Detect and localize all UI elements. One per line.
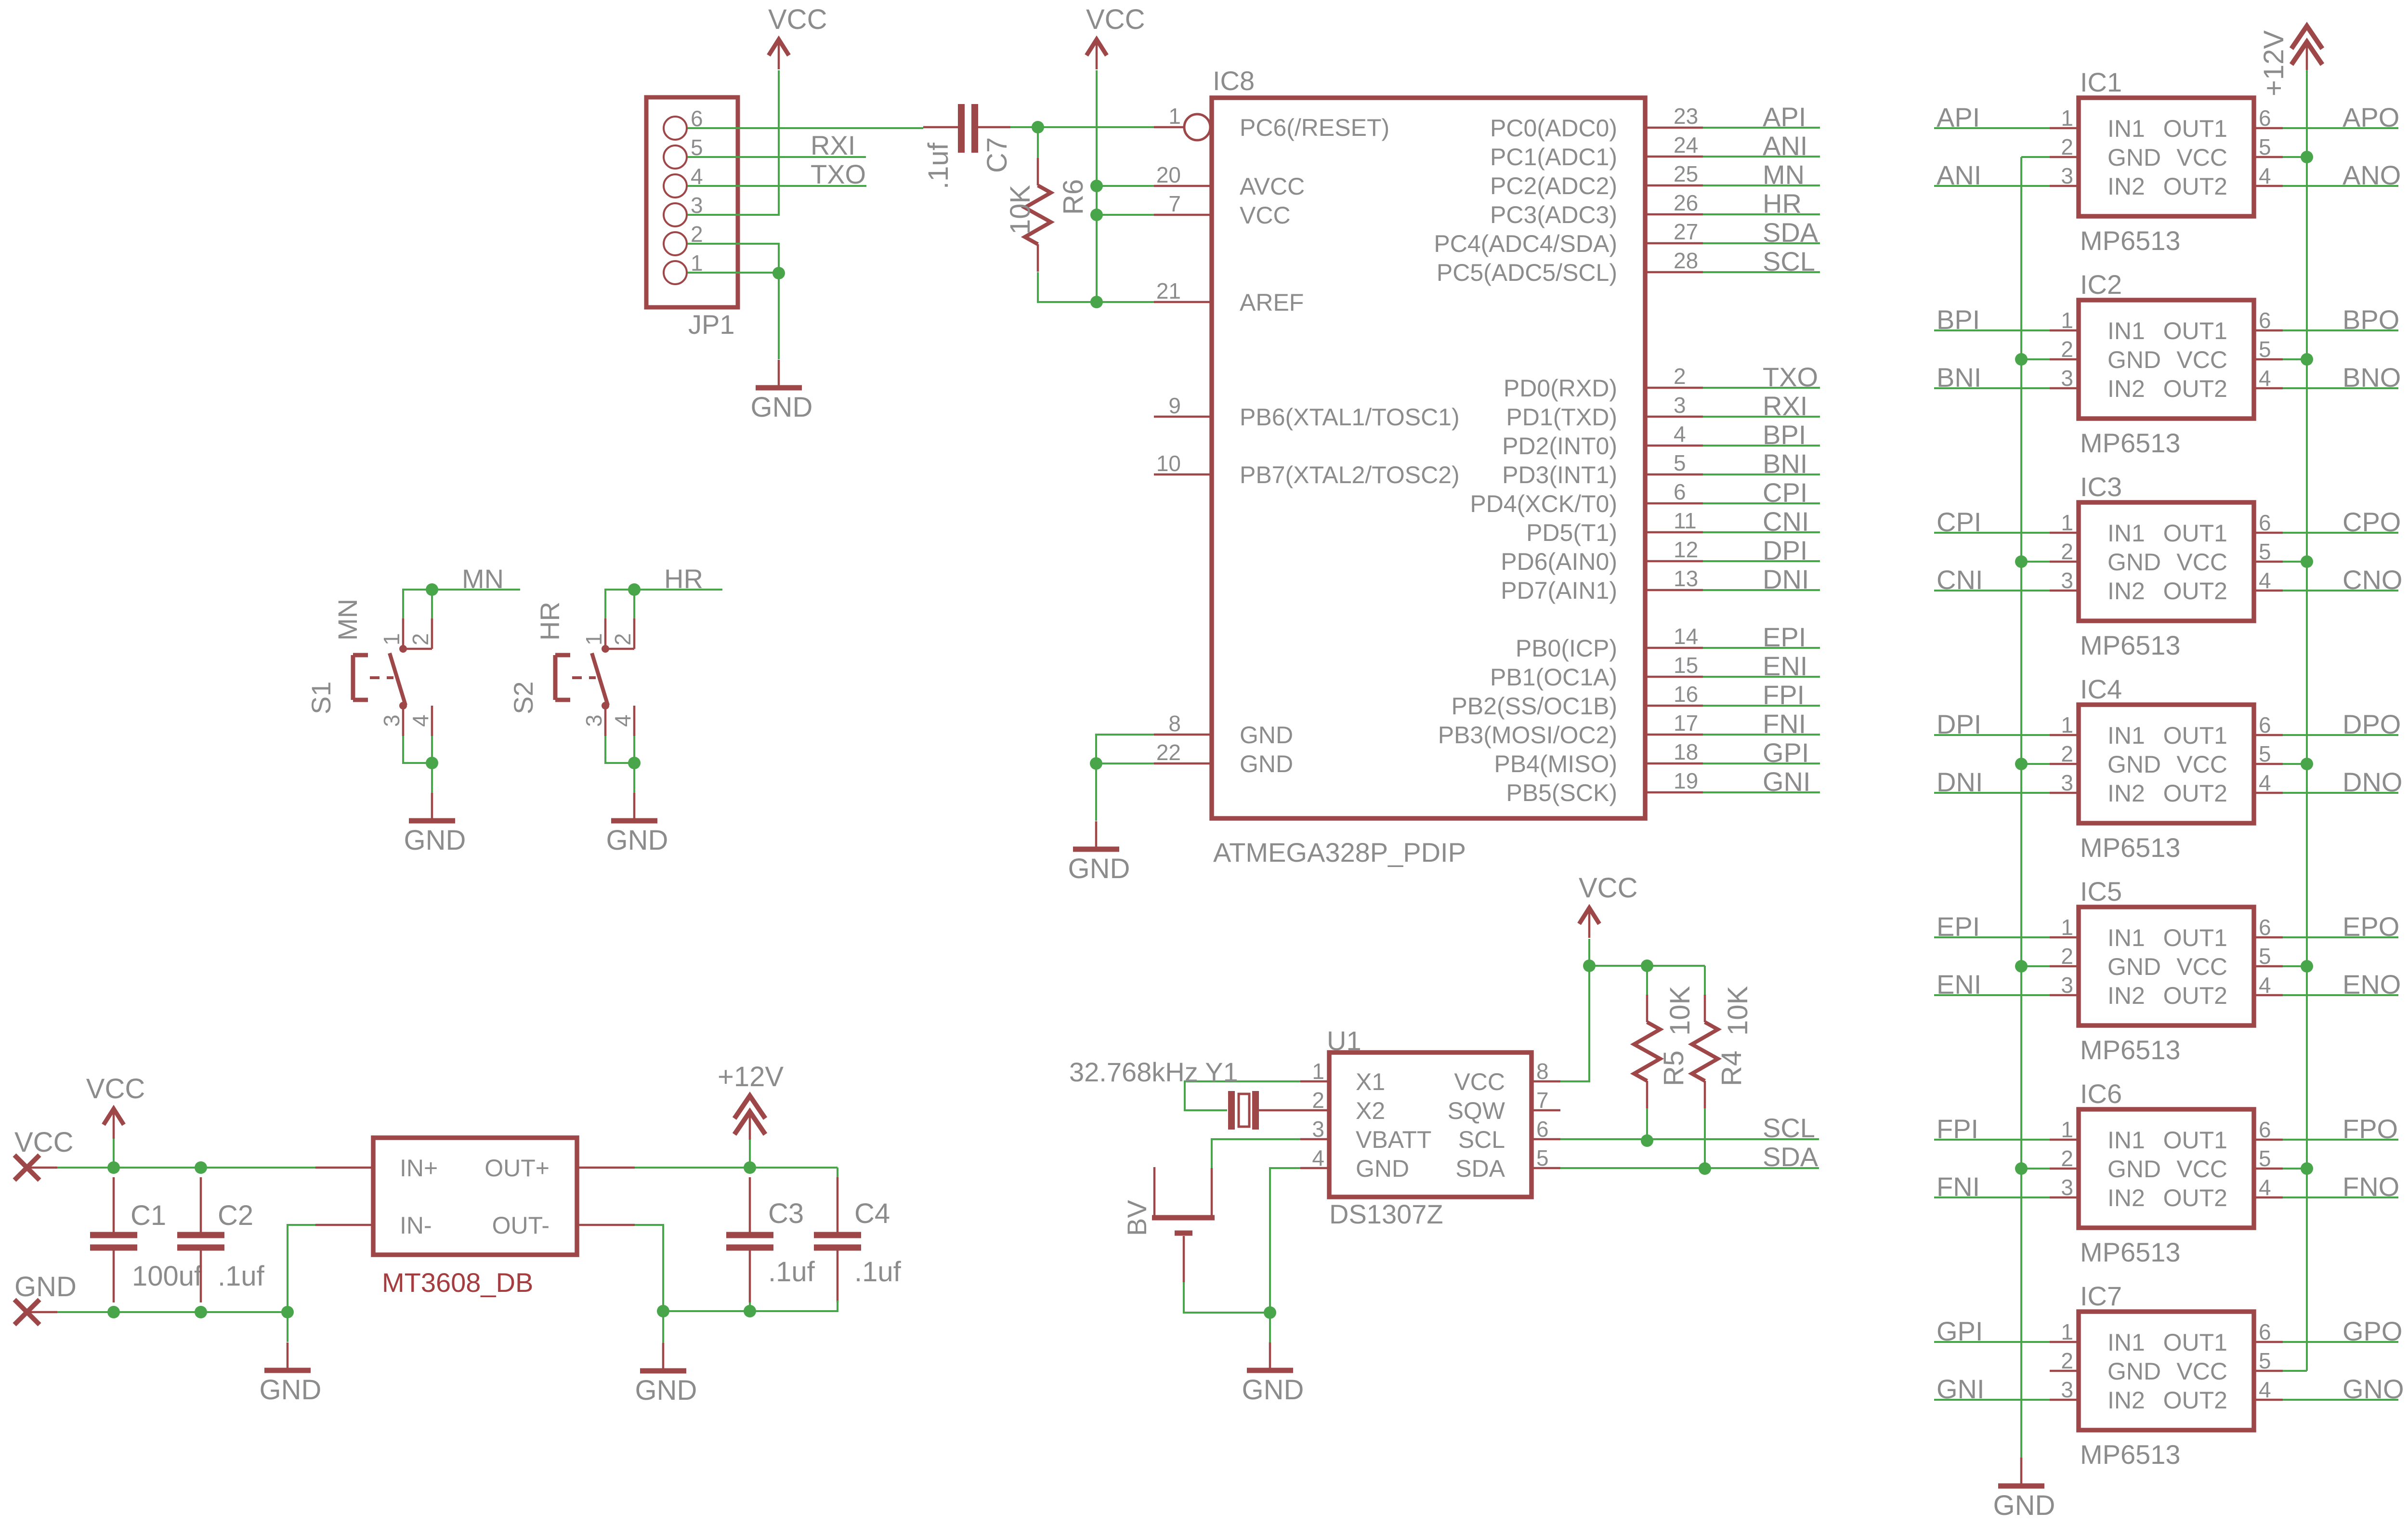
svg-text:CPI: CPI [1763,477,1807,508]
wire net SCL [1703,271,1820,273]
svg-text:FPI: FPI [1937,1114,1978,1144]
svg-text:25: 25 [1674,161,1698,186]
svg-text:1: 1 [2061,105,2073,131]
wire pin2 up [633,590,635,618]
svg-text:GND: GND [1993,1490,2055,1521]
svg-text:IC1: IC1 [2080,67,2122,97]
svg-text:16: 16 [1674,682,1698,707]
IC2 pin 6 lead [2254,329,2283,332]
svg-text:IC8: IC8 [1213,66,1255,96]
svg-text:5: 5 [1536,1145,1549,1170]
svg-text:SQW: SQW [1448,1097,1505,1124]
svg-text:C3: C3 [768,1198,804,1229]
svg-text:OUT-: OUT- [492,1212,550,1239]
svg-text:GND: GND [635,1375,697,1406]
wire net DPO [2283,734,2398,736]
IC4 pin 2 lead [2050,763,2079,765]
svg-text:DPI: DPI [1937,709,1981,739]
wire net DNI [1934,792,2050,794]
IC IC5 MP6513 body [2079,907,2254,1025]
svg-text:PB7(XTAL2/TOSC2): PB7(XTAL2/TOSC2) [1240,461,1460,488]
wire vcc pin to bus [2283,358,2307,360]
IC7 pin 5 lead [2254,1370,2283,1372]
wire net EPI [1934,936,2050,938]
wire vcc pin to bus [2283,763,2307,765]
svg-text:26: 26 [1674,190,1698,215]
resistor R6 [1025,158,1051,272]
IC2 pin 1 lead [2050,329,2079,332]
wire gnd pin to bus [2021,1168,2050,1170]
svg-text:7: 7 [1536,1088,1549,1113]
U1 pin 6 SCL lead [1531,1138,1560,1141]
svg-text:CPO: CPO [2343,507,2401,537]
svg-text:IN1: IN1 [2107,1329,2145,1356]
IC8 pin 26 PC3(ADC3) lead [1645,213,1703,216]
wire net MN [1703,184,1820,186]
wire pullup rail [1589,965,1705,967]
svg-text:GNO: GNO [2343,1374,2404,1404]
svg-text:CNI: CNI [1937,565,1983,595]
IC3 pin 3 lead [2050,590,2079,592]
wire VCC vertical (IC8) [1096,70,1098,302]
svg-text:IN1: IN1 [2107,317,2145,344]
svg-text:GPO: GPO [2343,1316,2402,1346]
svg-text:C2: C2 [218,1200,253,1231]
svg-text:VCC: VCC [14,1127,73,1158]
svg-text:6: 6 [2259,915,2271,940]
wire net API [1934,127,2050,129]
svg-text:GND: GND [14,1271,77,1302]
svg-text:10K: 10K [1722,986,1754,1036]
svg-text:VCC: VCC [1086,4,1145,35]
junction C1 [107,1161,120,1174]
IC3 pin 6 lead [2254,532,2283,534]
wire net CPI [1934,532,2050,534]
wire GND bus vertical [2020,157,2022,1458]
svg-text:ENO: ENO [2343,969,2401,999]
svg-text:GNI: GNI [1937,1374,1985,1404]
svg-text:6: 6 [1536,1117,1549,1142]
wire R6 top [1037,127,1039,159]
wire net TXO [1703,387,1820,389]
svg-text:11: 11 [1674,508,1697,533]
svg-text:RXI: RXI [1763,391,1807,421]
svg-text:2: 2 [2061,944,2073,969]
svg-text:15: 15 [1674,653,1698,678]
svg-text:GND: GND [606,825,668,856]
IC U1 DS1307Z body [1329,1052,1531,1197]
wire vcc pin to bus [2283,156,2307,158]
svg-text:DNO: DNO [2343,767,2402,797]
wire pin3 down [403,736,432,763]
wire battery minus to gnd node [1184,1282,1270,1313]
supply VCC (U1) [1579,872,1637,938]
IC5 pin 1 lead [2050,936,2079,939]
svg-text:2: 2 [1312,1088,1324,1113]
svg-text:4: 4 [2259,973,2271,998]
wire net ANO [2283,185,2398,187]
MT3608 IN- pin lead [315,1224,373,1226]
switch S2 top pin stubs [605,618,634,649]
wire gnd pin to bus [2021,358,2050,360]
wire net CPO [2283,532,2398,534]
svg-text:5: 5 [2259,539,2271,564]
wire IC8 pin8 GND [1096,735,1154,763]
wire gnd pin to bus [2021,561,2050,563]
svg-text:C7: C7 [982,137,1013,173]
svg-text:ANI: ANI [1937,160,1981,190]
wire net CNI [1934,590,2050,592]
U1 pin 1 X1 lead [1300,1080,1329,1083]
junction SDA pullup [1699,1162,1711,1175]
svg-text:IC2: IC2 [2080,269,2122,300]
svg-text:23: 23 [1674,104,1698,129]
IC7 pin 6 lead [2254,1341,2283,1343]
svg-text:SCL: SCL [1763,1113,1815,1143]
capacitor C1 plates [90,1177,137,1302]
svg-text:ANI: ANI [1763,131,1807,161]
switch S1 contact [390,645,407,710]
svg-text:IN1: IN1 [2107,924,2145,951]
svg-text:OUT2: OUT2 [2163,1387,2227,1414]
svg-text:OUT+: OUT+ [484,1155,550,1182]
svg-text:VCC: VCC [1579,872,1637,904]
JP1 pin 2 circle [664,232,687,255]
wire X1 to crystal [1185,1081,1300,1110]
svg-text:OUT1: OUT1 [2163,722,2227,749]
MT3608 OUT- lead [577,1224,635,1226]
IC IC8 ATMEGA328P_PDIP body [1212,98,1645,818]
wire AVCC [1097,185,1154,187]
svg-text:C4: C4 [854,1198,890,1229]
junction R5 top [1641,960,1653,972]
svg-text:1: 1 [2061,1117,2073,1142]
svg-text:SCL: SCL [1763,246,1815,276]
svg-text:GND: GND [1242,1374,1304,1406]
ground GND (output) [635,1343,697,1406]
svg-text:MP6513: MP6513 [2080,1439,2181,1470]
svg-text:32.768kHz Y1: 32.768kHz Y1 [1069,1057,1238,1087]
svg-text:GND: GND [2107,953,2161,980]
svg-text:FPI: FPI [1763,680,1805,710]
wire to GND symbol (C3) [662,1311,664,1343]
svg-text:SDA: SDA [1763,1142,1819,1172]
svg-text:IN2: IN2 [2107,1184,2145,1211]
svg-text:ATMEGA328P_PDIP: ATMEGA328P_PDIP [1213,837,1466,868]
IC3 pin 2 lead [2050,561,2079,563]
IC7 pin 4 lead [2254,1399,2283,1401]
svg-text:MP6513: MP6513 [2080,630,2181,660]
svg-text:IN1: IN1 [2107,520,2145,547]
IC6 pin 2 lead [2050,1168,2079,1170]
svg-text:PD2(INT0): PD2(INT0) [1502,433,1617,460]
supply VCC (input rail) [86,1073,145,1139]
svg-text:HR: HR [535,602,565,641]
svg-text:PC6(/RESET): PC6(/RESET) [1240,114,1389,141]
IC IC2 MP6513 body [2079,300,2254,419]
svg-text:19: 19 [1674,768,1698,793]
svg-text:MP6513: MP6513 [2080,832,2181,863]
svg-text:OUT2: OUT2 [2163,1184,2227,1211]
IC5 pin 2 lead [2050,965,2079,968]
junction SCL pullup [1641,1134,1653,1147]
wire R5 bottom [1646,1108,1648,1141]
svg-text:VCC: VCC [86,1073,145,1104]
svg-text:IN1: IN1 [2107,722,2145,749]
junction +12V bus [2301,1162,2313,1175]
IC6 pin 3 lead [2050,1196,2079,1199]
IC5 pin 3 lead [2050,994,2079,997]
svg-text:FNO: FNO [2343,1171,2399,1202]
wire vcc pin to bus [2283,965,2307,967]
wire net APO [2283,127,2398,129]
svg-text:GND: GND [1068,853,1130,884]
svg-text:4: 4 [1674,421,1686,447]
IC7 pin 2 lead [2050,1370,2079,1372]
junction C3 top [744,1161,756,1174]
svg-text:PB1(OC1A): PB1(OC1A) [1490,664,1617,691]
junction VCC pin7 [1090,209,1103,221]
svg-text:22: 22 [1156,740,1181,765]
junction +12V bus [2301,555,2313,568]
IC3 pin 4 lead [2254,590,2283,592]
svg-text:GND: GND [2107,549,2161,576]
switch S2 contact [592,645,609,710]
svg-text:VCC: VCC [2176,751,2227,778]
wire vcc pin to bus [2283,561,2307,563]
svg-text:6: 6 [2259,1117,2271,1142]
svg-text:20: 20 [1156,162,1181,187]
svg-text:VBATT: VBATT [1356,1126,1431,1153]
svg-text:4: 4 [1312,1145,1324,1170]
ground GND (JP1) [751,360,813,423]
svg-text:6: 6 [1674,479,1686,504]
svg-text:.1uf: .1uf [923,142,954,189]
svg-text:GND: GND [1240,722,1293,749]
module MT3608_DB body [373,1138,577,1255]
svg-text:13: 13 [1674,566,1698,591]
svg-text:X1: X1 [1356,1068,1385,1095]
U1 pin 7 SQW lead [1531,1109,1560,1112]
IC6 pin 6 lead [2254,1139,2283,1141]
IC5 pin 5 lead [2254,965,2283,968]
svg-text:SDA: SDA [1763,217,1819,248]
svg-text:10K: 10K [1005,184,1036,235]
svg-text:CPI: CPI [1937,507,1981,537]
svg-text:18: 18 [1674,739,1698,764]
svg-text:9: 9 [1168,393,1181,418]
svg-text:OUT2: OUT2 [2163,578,2227,605]
wire VCC stub (U1) [1588,939,1590,966]
svg-text:EPO: EPO [2343,911,2399,942]
junction +12V bus [2301,151,2313,163]
svg-text:3: 3 [2061,163,2073,188]
wire net ENO [2283,994,2398,996]
JP1 pin 1 circle [664,261,687,284]
svg-text:GND: GND [404,825,466,856]
svg-text:OUT2: OUT2 [2163,173,2227,200]
MT3608 IN+ pin lead [315,1167,373,1169]
IC2 pin 2 lead [2050,358,2079,361]
wire to GND (JP1) [778,273,780,359]
svg-text:1: 1 [379,633,404,645]
svg-text:HR: HR [664,564,703,594]
svg-text:OUT1: OUT1 [2163,1329,2227,1356]
switch S1 bottom pin stubs [403,706,432,736]
wire net BPI [1703,445,1820,447]
wire net CPI [1703,502,1820,504]
svg-text:3: 3 [1312,1117,1324,1142]
U1 pin 4 GND lead [1300,1167,1329,1170]
svg-text:2: 2 [2061,337,2073,362]
svg-text:VCC: VCC [2176,346,2227,373]
wire to GND [633,763,635,793]
wire C7 to IC8 pin1 [1010,126,1154,128]
svg-text:DNI: DNI [1937,767,1983,797]
IC IC3 MP6513 body [2079,502,2254,621]
svg-text:APO: APO [2343,102,2399,132]
svg-text:GND: GND [751,392,813,423]
svg-text:BPI: BPI [1937,304,1980,335]
ground GND (driver bus) [1993,1486,2055,1521]
junction gnd bus [2015,555,2028,568]
svg-text:VCC: VCC [768,4,827,35]
IC8 pin 25 PC2(ADC2) lead [1645,184,1703,187]
wire net GNI [1703,791,1820,793]
svg-text:.1uf: .1uf [218,1261,265,1292]
svg-text:PD4(XCK/T0): PD4(XCK/T0) [1470,490,1617,517]
svg-text:+12V: +12V [2258,30,2290,96]
JP1 pin 3 circle [664,203,687,226]
wire net BPI [1934,329,2050,331]
IC IC1 MP6513 body [2079,98,2254,216]
IC8 pin 15 PB1(OC1A) lead [1645,676,1703,678]
IC1 pin 5 lead [2254,156,2283,158]
svg-text:VCC: VCC [2176,953,2227,980]
svg-text:14: 14 [1674,624,1698,649]
svg-text:VCC: VCC [2176,1156,2227,1183]
wire U1 VCC up [1560,966,1589,1081]
wire net ANI [1703,156,1820,158]
svg-text:3: 3 [1674,393,1686,418]
svg-text:PB0(ICP): PB0(ICP) [1516,635,1617,662]
IC8 pin 27 PC4(ADC4/SDA) lead [1645,242,1703,245]
svg-text:IN2: IN2 [2107,375,2145,402]
svg-text:GND: GND [2107,346,2161,373]
svg-text:TXO: TXO [811,159,866,189]
svg-text:ENI: ENI [1763,651,1807,681]
wire net RXI [688,156,866,158]
wire VCC pin7 [1097,214,1154,216]
supply +12V (driver bus) [2258,26,2322,96]
junction C2 gnd [195,1306,207,1318]
svg-text:8: 8 [1168,711,1181,736]
svg-text:MP6513: MP6513 [2080,225,2181,256]
svg-text:4: 4 [2259,163,2271,188]
svg-text:3: 3 [2061,1377,2073,1402]
svg-text:ANO: ANO [2343,160,2401,190]
svg-text:5: 5 [2259,1146,2271,1171]
svg-text:IC7: IC7 [2080,1281,2122,1311]
svg-text:7: 7 [1168,191,1181,216]
svg-text:TXO: TXO [1763,362,1818,392]
IC IC7 MP6513 body [2079,1312,2254,1430]
svg-text:2: 2 [408,633,433,645]
svg-text:CNO: CNO [2343,565,2402,595]
svg-text:PD5(T1): PD5(T1) [1526,519,1617,546]
svg-text:VCC: VCC [2176,1358,2227,1385]
resistor R4 [1692,995,1718,1108]
svg-text:PC0(ADC0): PC0(ADC0) [1490,115,1617,142]
svg-text:GND: GND [1356,1155,1409,1182]
junction HR [628,583,641,596]
svg-text:PD6(AIN0): PD6(AIN0) [1501,548,1617,575]
svg-text:MN: MN [332,599,363,641]
svg-text:FPO: FPO [2343,1114,2398,1144]
wire net DNI [1703,589,1820,591]
IC8 pin 18 PB4(MISO) lead [1645,762,1703,765]
junction VCC pullups [1583,960,1596,972]
svg-text:PB2(SS/OC1B): PB2(SS/OC1B) [1451,693,1617,720]
U1 pin 5 SDA lead [1531,1167,1560,1170]
IC6 pin 4 lead [2254,1196,2283,1199]
wire GND input rail [57,1311,288,1313]
switch S1 actuator [353,655,393,700]
svg-text:ENI: ENI [1937,969,1981,999]
svg-text:PC2(ADC2): PC2(ADC2) [1490,172,1617,199]
IC8 pin 28 PC5(ADC5/SCL) lead [1645,271,1703,274]
IC6 pin 5 lead [2254,1168,2283,1170]
svg-text:3: 3 [2061,770,2073,795]
svg-text:5: 5 [2259,134,2271,159]
svg-text:1: 1 [2061,712,2073,737]
GND bus stem [2020,1458,2023,1486]
svg-text:GND: GND [2107,1156,2161,1183]
svg-text:OUT1: OUT1 [2163,520,2227,547]
IC8 pin 12 PD6(AIN0) lead [1645,560,1703,563]
svg-text:3: 3 [2061,973,2073,998]
IC8 pin 3 PD1(TXD) lead [1645,416,1703,418]
svg-text:1: 1 [2061,1319,2073,1344]
svg-text:BPO: BPO [2343,304,2399,335]
IC8 pin 2 PD0(RXD) lead [1645,387,1703,389]
wire net BPO [2283,329,2398,331]
svg-text:IN+: IN+ [400,1155,438,1182]
wire net CNO [2283,590,2398,592]
svg-text:MN: MN [462,564,504,594]
svg-text:SCL: SCL [1458,1126,1505,1153]
svg-text:GPI: GPI [1937,1316,1983,1346]
svg-text:3: 3 [581,714,606,727]
IC4 pin 6 lead [2254,734,2283,736]
wire gnd pin to bus [2021,156,2050,158]
IC8 pin 8 GND lead [1154,734,1212,736]
wire gnd pin to bus [2021,763,2050,765]
wire net DNO [2283,792,2398,794]
wire C4 top stub [837,1168,838,1177]
IC4 pin 3 lead [2050,792,2079,794]
wire bottom rail C3 C4 [663,1301,838,1311]
wire VBATT to battery [1212,1139,1300,1168]
svg-text:10K: 10K [1664,986,1696,1036]
wire net GPO [2283,1341,2398,1343]
svg-text:PC3(ADC3): PC3(ADC3) [1490,201,1617,228]
JP1 pin 5 circle [664,145,687,169]
switch S2 bottom pin stubs [605,706,634,736]
svg-text:BV: BV [1122,1200,1152,1236]
svg-text:OUT2: OUT2 [2163,982,2227,1009]
wire OUT- down [635,1225,663,1311]
